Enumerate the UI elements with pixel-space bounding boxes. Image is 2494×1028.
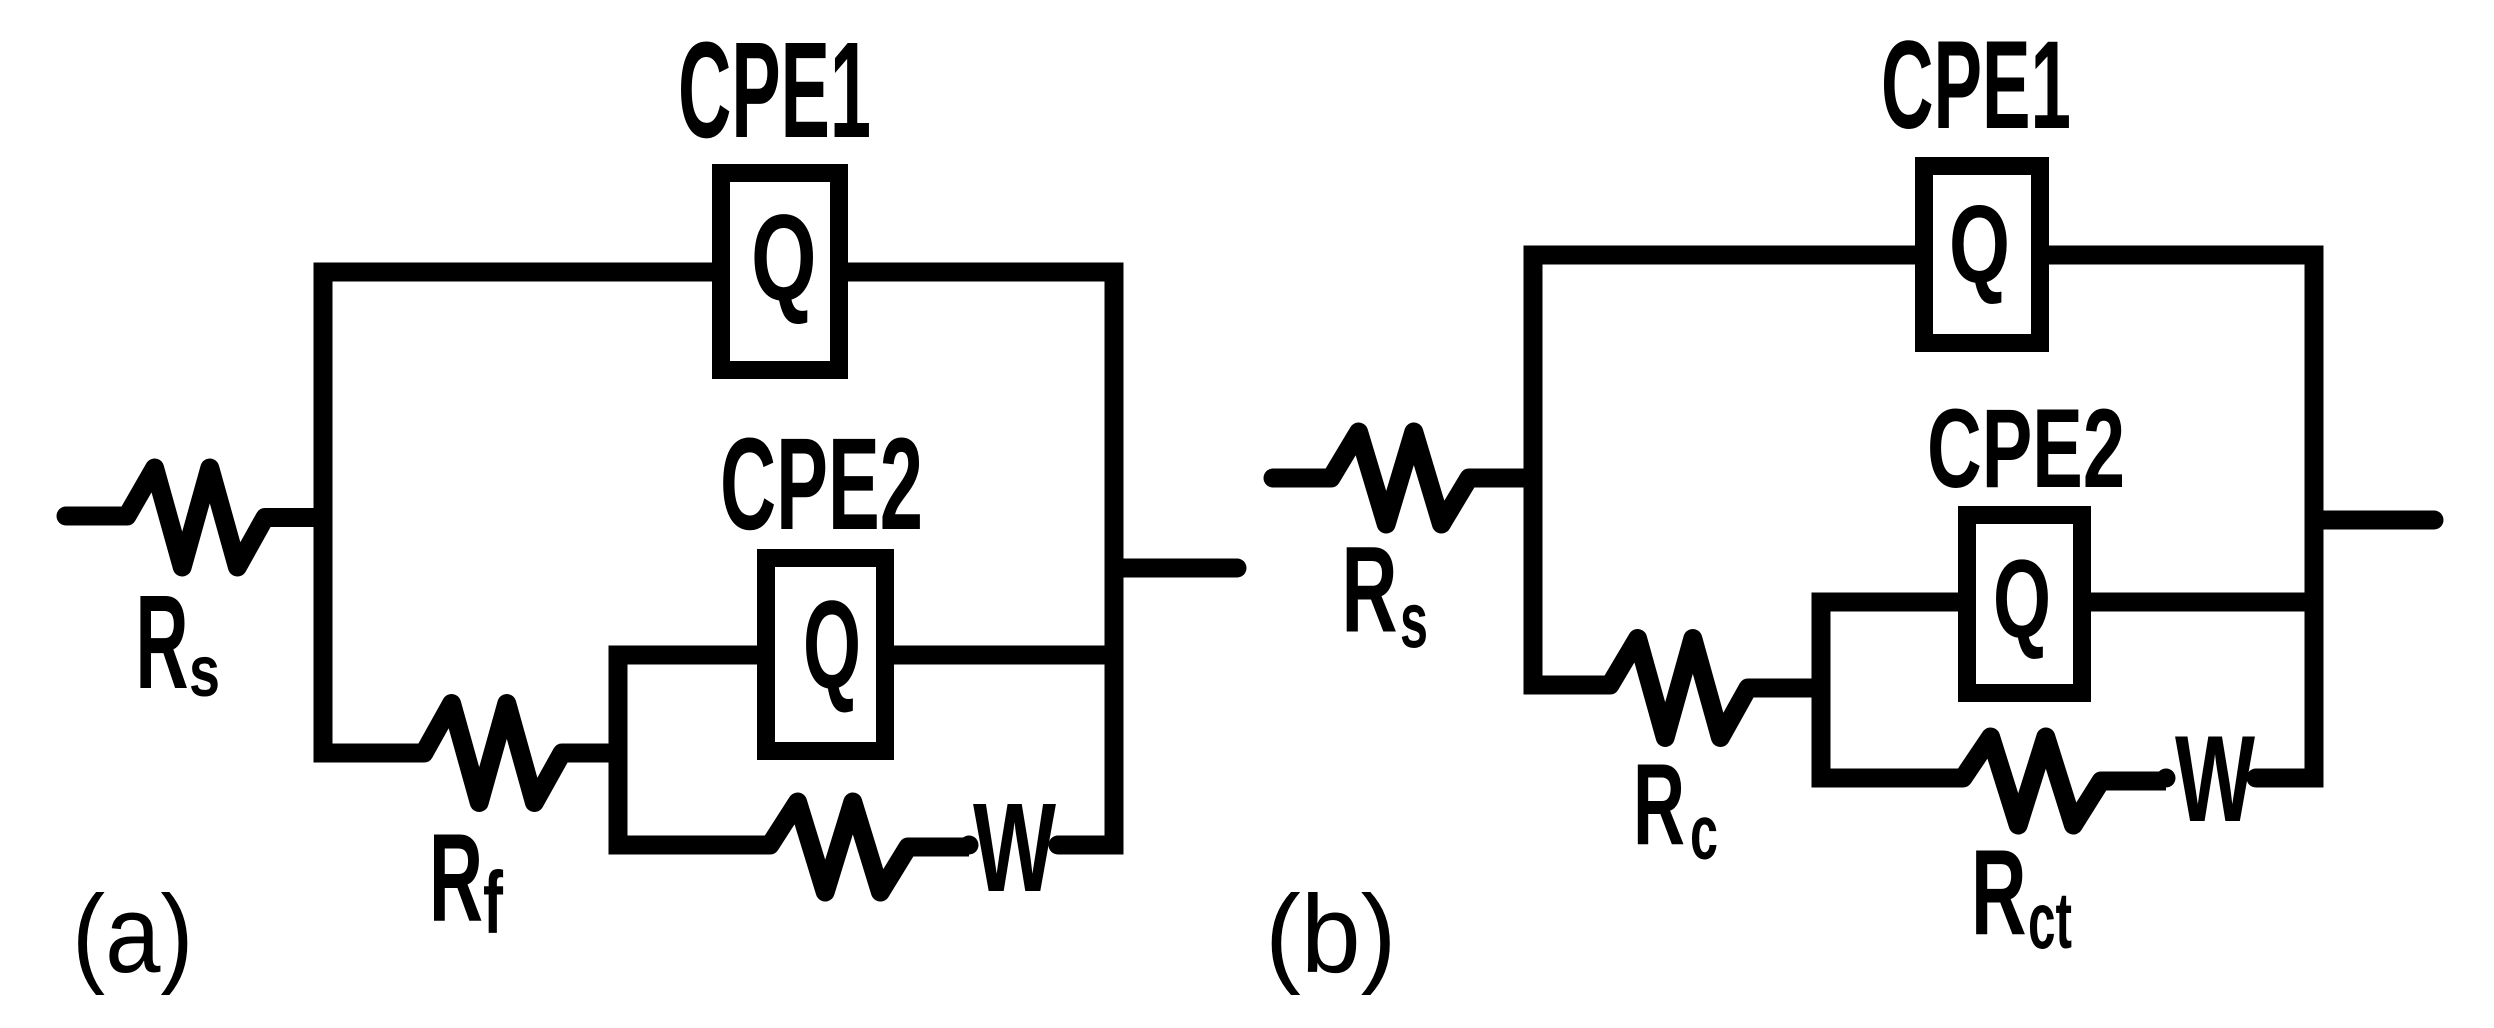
wire inner-left vertical (b) (1812, 593, 1831, 788)
svg-text:ct: ct (2028, 876, 2072, 965)
wire right vertical (b) (2305, 246, 2324, 788)
capacitor-like CPE2 box (a) (766, 558, 885, 751)
svg-text:CPE1: CPE1 (1881, 16, 2071, 155)
svg-text:Q: Q (751, 189, 817, 326)
svg-text:(b): (b) (1265, 873, 1397, 996)
svg-text:CPE1: CPE1 (678, 13, 871, 166)
svg-text:CPE2: CPE2 (720, 410, 923, 557)
svg-text:W: W (2175, 710, 2256, 847)
wire inner top rail (b) (1812, 593, 2324, 612)
wire rounded end right of W (b) (2247, 769, 2266, 788)
capacitor-like CPE1 box (b) (1924, 166, 2040, 343)
svg-text:R: R (1633, 740, 1685, 870)
svg-text:Q: Q (1993, 537, 2051, 661)
svg-text:R: R (429, 809, 483, 948)
wire right vertical (a) (1105, 263, 1124, 855)
wire input rounded end (a) (57, 507, 76, 526)
svg-text:c: c (1690, 790, 1718, 876)
svg-text:s: s (189, 632, 220, 712)
svg-text:CPE2: CPE2 (1927, 385, 2125, 511)
svg-text:Q: Q (803, 576, 861, 715)
wire inner-left vertical (a) (609, 646, 628, 855)
capacitor-like CPE1 box (a) (721, 173, 839, 370)
wire output rounded end (b) (2425, 511, 2444, 530)
svg-text:R: R (136, 568, 189, 717)
wire inner bottom rail right segment (b) (2256, 769, 2324, 788)
wire inner top rail (a) (609, 646, 1124, 665)
wire left vertical (b) (1524, 246, 1543, 695)
wire output rounded end (a) (1228, 559, 1247, 578)
capacitor-like CPE2 box (b) (1967, 515, 2082, 693)
wire inner bottom rail + zigzag of Warburg W (b) (1812, 737, 2167, 825)
wire input rounded end (b) (1264, 469, 1283, 488)
svg-text:(a): (a) (72, 873, 194, 996)
svg-text:R: R (1342, 522, 1398, 659)
svg-text:W: W (973, 776, 1056, 918)
wire output stub (b) (2314, 511, 2434, 530)
svg-text:Q: Q (1949, 183, 2010, 306)
wire rounded end left of W (a) (960, 836, 979, 855)
wire inner bottom rail right segment (a) (1058, 836, 1124, 855)
wire left vertical (a) (314, 263, 333, 763)
wire rounded end left of W (b) (2157, 769, 2176, 788)
wire bottom rail + resistor Rf (a) zigzag (314, 704, 628, 803)
wire inner bottom rail + zigzag of Warburg W (a) (609, 802, 970, 892)
wire bottom rail + resistor Rc (b) zigzag (1524, 639, 1831, 738)
wire rounded end right of W (a) (1049, 836, 1068, 855)
wire output stub (a) (1114, 559, 1237, 578)
svg-text:s: s (1400, 575, 1428, 664)
wire top rail (b) (1524, 246, 2324, 265)
svg-text:f: f (483, 853, 503, 952)
wire top rail (a) (314, 263, 1124, 282)
wire input + resistor Rs (a) zigzag (66, 468, 333, 567)
svg-text:R: R (1971, 825, 2027, 961)
wire input + resistor Rs (b) zigzag (1273, 432, 1543, 524)
